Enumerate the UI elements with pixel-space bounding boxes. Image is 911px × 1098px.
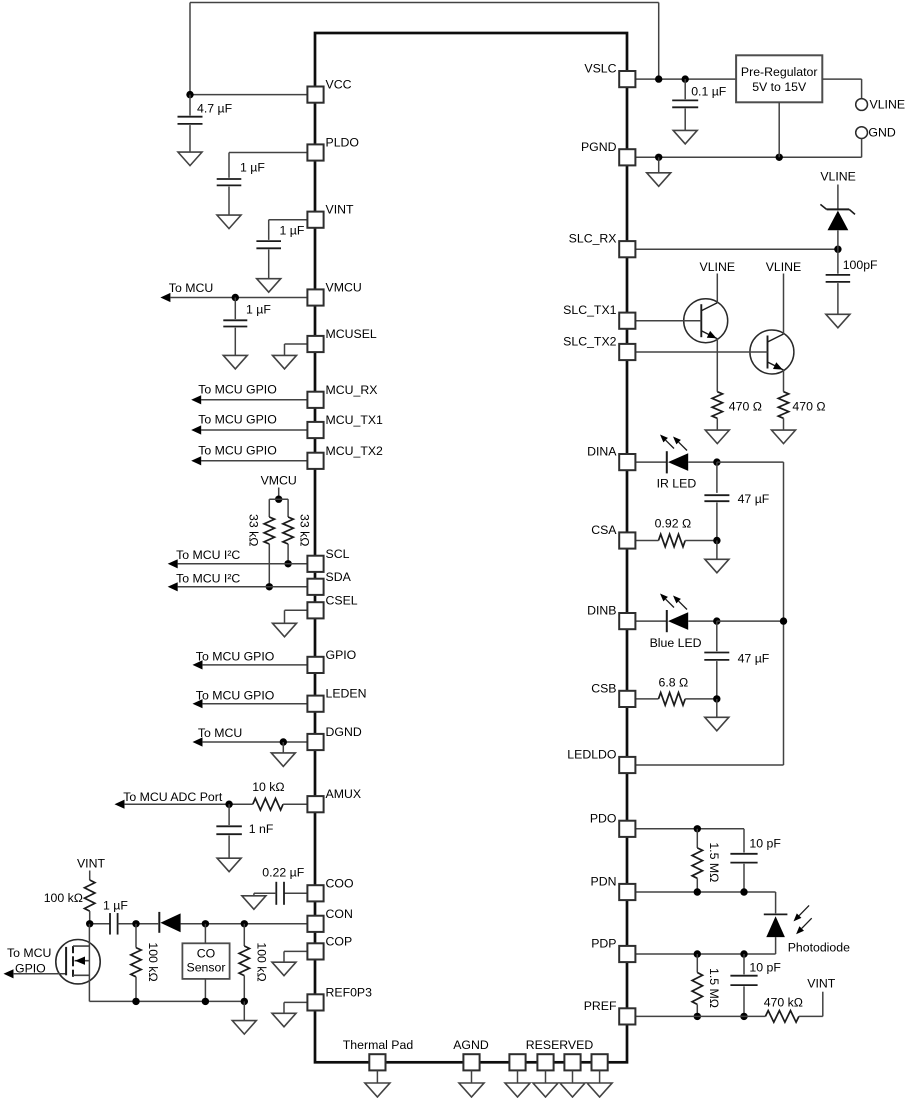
svg-text:GPIO: GPIO xyxy=(326,648,357,662)
svg-text:PREF: PREF xyxy=(584,999,617,1013)
svg-text:Blue LED: Blue LED xyxy=(650,636,702,650)
svg-text:PDP: PDP xyxy=(591,937,616,951)
svg-text:100 kΩ: 100 kΩ xyxy=(146,942,160,981)
svg-text:47 µF: 47 µF xyxy=(738,492,770,506)
svg-text:AGND: AGND xyxy=(453,1038,489,1052)
svg-text:VMCU: VMCU xyxy=(326,281,362,295)
svg-text:SLC_RX: SLC_RX xyxy=(569,232,617,246)
svg-text:LEDEN: LEDEN xyxy=(326,687,367,701)
svg-text:0.92 Ω: 0.92 Ω xyxy=(655,516,692,530)
svg-text:SLC_TX2: SLC_TX2 xyxy=(563,335,616,349)
svg-text:470 Ω: 470 Ω xyxy=(729,400,762,414)
svg-text:1 µF: 1 µF xyxy=(246,303,271,317)
svg-text:VLINE: VLINE xyxy=(870,97,906,111)
svg-text:MCUSEL: MCUSEL xyxy=(326,327,377,341)
svg-text:1.5 MΩ: 1.5 MΩ xyxy=(707,842,721,882)
svg-text:4.7 µF: 4.7 µF xyxy=(197,102,233,116)
svg-text:To MCU GPIO: To MCU GPIO xyxy=(198,413,277,427)
svg-text:GND: GND xyxy=(868,125,895,139)
svg-text:0.22 µF: 0.22 µF xyxy=(262,865,304,879)
svg-text:5V to 15V: 5V to 15V xyxy=(752,80,807,94)
svg-text:CSEL: CSEL xyxy=(326,593,358,607)
svg-text:IR LED: IR LED xyxy=(657,476,697,490)
svg-text:VLINE: VLINE xyxy=(766,260,802,274)
svg-text:RESERVED: RESERVED xyxy=(526,1038,594,1052)
svg-text:470 kΩ: 470 kΩ xyxy=(764,995,803,1009)
svg-text:AMUX: AMUX xyxy=(326,787,362,801)
svg-text:MCU_TX1: MCU_TX1 xyxy=(326,413,384,427)
svg-text:Thermal Pad: Thermal Pad xyxy=(343,1038,414,1052)
svg-text:Pre-Regulator: Pre-Regulator xyxy=(741,65,818,79)
svg-text:SCL: SCL xyxy=(326,547,350,561)
svg-text:VINT: VINT xyxy=(807,976,835,990)
svg-text:COO: COO xyxy=(326,876,354,890)
svg-text:VINT: VINT xyxy=(326,203,354,217)
svg-text:33 kΩ: 33 kΩ xyxy=(247,514,261,546)
svg-text:0.1 µF: 0.1 µF xyxy=(691,84,727,98)
svg-text:10 kΩ: 10 kΩ xyxy=(252,780,284,794)
svg-text:VCC: VCC xyxy=(326,78,352,92)
svg-text:100 kΩ: 100 kΩ xyxy=(255,942,269,981)
svg-text:470 Ω: 470 Ω xyxy=(792,400,825,414)
svg-text:GPIO: GPIO xyxy=(15,962,46,976)
svg-text:To MCU GPIO: To MCU GPIO xyxy=(196,650,275,664)
svg-text:REF0P3: REF0P3 xyxy=(326,985,373,999)
svg-text:PLDO: PLDO xyxy=(326,136,360,150)
svg-text:SLC_TX1: SLC_TX1 xyxy=(563,303,616,317)
svg-text:VLINE: VLINE xyxy=(820,170,856,184)
svg-text:DINA: DINA xyxy=(587,445,617,459)
svg-text:47 µF: 47 µF xyxy=(738,652,770,666)
svg-text:CSA: CSA xyxy=(591,523,617,537)
svg-text:CON: CON xyxy=(326,907,353,921)
svg-text:To MCU ADC Port: To MCU ADC Port xyxy=(123,790,223,804)
svg-text:CSB: CSB xyxy=(591,681,616,695)
svg-text:1.5 MΩ: 1.5 MΩ xyxy=(707,968,721,1008)
svg-text:To MCU: To MCU xyxy=(169,281,213,295)
svg-text:Sensor: Sensor xyxy=(187,960,226,974)
svg-text:VINT: VINT xyxy=(77,857,105,871)
svg-text:PDN: PDN xyxy=(591,875,617,889)
svg-text:PDO: PDO xyxy=(590,811,617,825)
svg-text:To MCU GPIO: To MCU GPIO xyxy=(198,382,277,396)
svg-text:6.8 Ω: 6.8 Ω xyxy=(659,675,689,689)
svg-text:VMCU: VMCU xyxy=(261,473,297,487)
svg-text:To MCU: To MCU xyxy=(198,726,242,740)
svg-text:SDA: SDA xyxy=(326,570,352,584)
svg-text:1 µF: 1 µF xyxy=(280,224,305,238)
svg-text:To MCU: To MCU xyxy=(7,946,51,960)
svg-text:1 nF: 1 nF xyxy=(249,822,274,836)
svg-text:10 pF: 10 pF xyxy=(749,836,781,850)
svg-text:33 kΩ: 33 kΩ xyxy=(298,514,312,546)
svg-text:1 µF: 1 µF xyxy=(240,161,265,175)
svg-text:1 µF: 1 µF xyxy=(103,899,128,913)
svg-text:To MCU GPIO: To MCU GPIO xyxy=(196,688,275,702)
svg-text:CO: CO xyxy=(197,947,215,961)
svg-text:COP: COP xyxy=(326,934,353,948)
svg-text:To MCU I²C: To MCU I²C xyxy=(176,548,240,562)
svg-text:DGND: DGND xyxy=(326,725,362,739)
svg-text:LEDLDO: LEDLDO xyxy=(567,748,616,762)
svg-text:100pF: 100pF xyxy=(843,258,878,272)
svg-text:To MCU I²C: To MCU I²C xyxy=(176,571,240,585)
svg-text:To MCU GPIO: To MCU GPIO xyxy=(198,443,277,457)
svg-text:100 kΩ: 100 kΩ xyxy=(44,891,83,905)
svg-text:VLINE: VLINE xyxy=(700,260,736,274)
svg-text:DINB: DINB xyxy=(587,604,616,618)
svg-text:PGND: PGND xyxy=(581,140,617,154)
svg-text:MCU_RX: MCU_RX xyxy=(326,383,378,397)
svg-text:Photodiode: Photodiode xyxy=(788,940,850,954)
svg-text:VSLC: VSLC xyxy=(584,62,616,76)
svg-text:MCU_TX2: MCU_TX2 xyxy=(326,444,384,458)
svg-text:10 pF: 10 pF xyxy=(749,960,781,974)
